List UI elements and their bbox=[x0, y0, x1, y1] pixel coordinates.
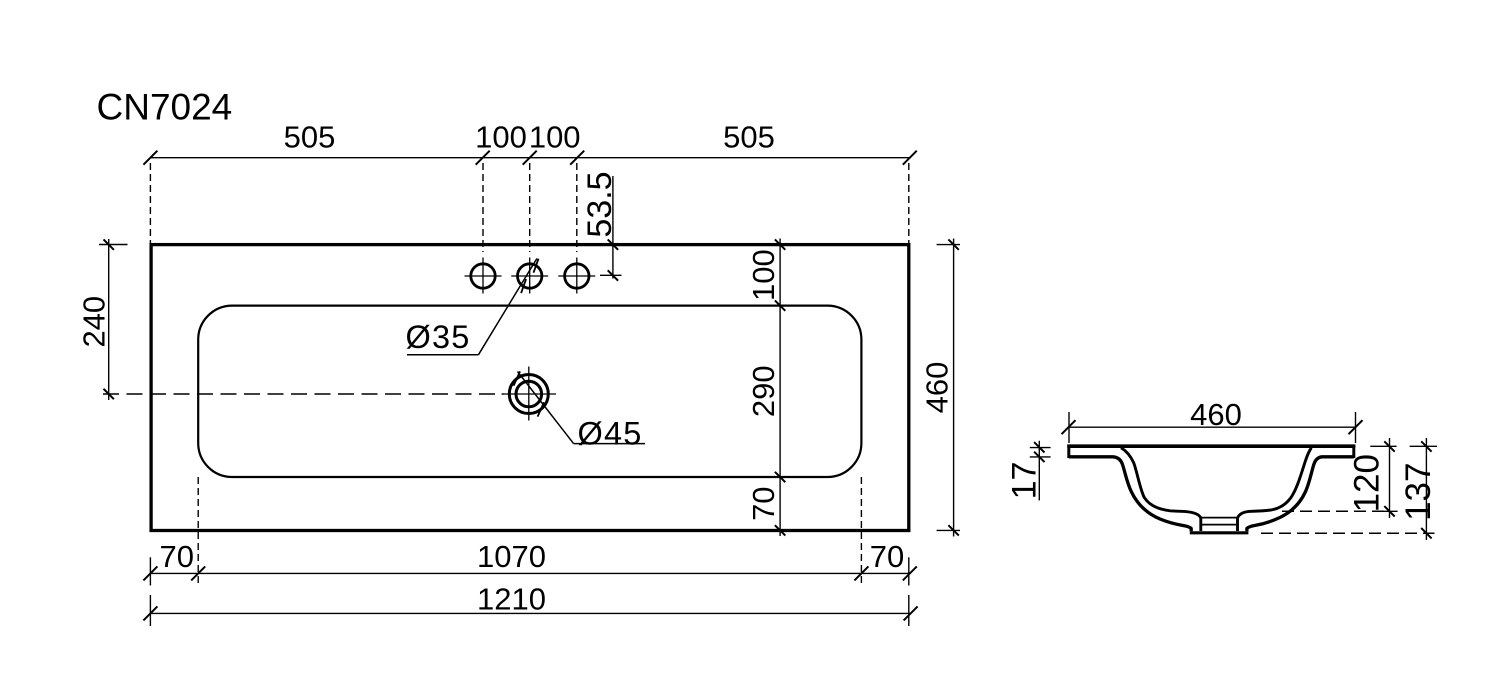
section foot bottom bbox=[1190, 531, 1249, 534]
dimension 240 vertical left bbox=[99, 239, 128, 400]
extension line left for 1210 dim bbox=[149, 595, 151, 626]
bottom dimension line 70/1070/70 bbox=[143, 566, 916, 580]
svg-text:Ø35: Ø35 bbox=[406, 319, 471, 355]
svg-text:460: 460 bbox=[920, 362, 955, 414]
svg-text:505: 505 bbox=[723, 120, 775, 155]
extension line right for 1210 dim bbox=[908, 595, 910, 626]
svg-text:70: 70 bbox=[160, 539, 194, 574]
svg-text:Ø45: Ø45 bbox=[578, 416, 643, 452]
section dimension 460 top bbox=[1062, 412, 1363, 443]
dimension 460 vertical right of plan bbox=[937, 239, 960, 537]
dashed extension hole 3 bbox=[576, 163, 578, 252]
section dimension 120 bbox=[1370, 438, 1397, 518]
svg-text:53.5: 53.5 bbox=[581, 171, 619, 237]
svg-text:120: 120 bbox=[1348, 454, 1387, 512]
section inner bowl profile bbox=[1121, 448, 1312, 531]
svg-text:CN7024: CN7024 bbox=[97, 87, 233, 128]
section outer shell profile bbox=[1069, 457, 1354, 532]
svg-text:240: 240 bbox=[77, 296, 112, 348]
dimension 53.5 vertical bbox=[600, 176, 622, 281]
svg-text:17: 17 bbox=[1006, 462, 1044, 500]
section dimension 17 bbox=[1030, 441, 1051, 501]
svg-text:505: 505 bbox=[284, 120, 336, 155]
dashed extension hole 2 bbox=[529, 163, 531, 252]
faucet hole middle bbox=[511, 258, 548, 294]
section rim left end cap bbox=[1067, 445, 1070, 459]
dashed extension basin right bottom bbox=[860, 477, 862, 586]
svg-text:1210: 1210 bbox=[477, 581, 546, 616]
dashed extension basin left bottom bbox=[197, 477, 199, 586]
faucet hole left bbox=[465, 258, 502, 294]
drain hole bbox=[502, 367, 557, 421]
leader Ø35 bbox=[407, 259, 539, 355]
svg-text:137: 137 bbox=[1399, 462, 1438, 520]
svg-text:1070: 1070 bbox=[477, 539, 546, 574]
svg-text:100: 100 bbox=[746, 249, 781, 301]
svg-text:100: 100 bbox=[475, 120, 527, 155]
svg-text:100: 100 bbox=[529, 120, 581, 155]
basin inner bowl rounded rectangle (plan view) bbox=[198, 306, 861, 477]
svg-text:290: 290 bbox=[746, 365, 781, 417]
section drain recess upper line bbox=[1201, 517, 1237, 519]
leader Ø45 bbox=[514, 371, 645, 443]
dashed extension hole 1 bbox=[482, 163, 484, 252]
bottom dimension line 1210 bbox=[143, 606, 917, 620]
top dimension line 505/100/100/505 bbox=[143, 151, 916, 165]
svg-text:70: 70 bbox=[746, 486, 781, 520]
section dimension 137 bbox=[1410, 438, 1437, 540]
section dashed line at basin bottom (120 level) bbox=[1282, 510, 1390, 512]
dashed extension left edge top bbox=[149, 163, 151, 243]
dashed centerline horizontal through drain bbox=[103, 393, 504, 395]
extension line left for 70/1070 dim bbox=[149, 557, 151, 585]
section drain recess lower line bbox=[1202, 524, 1236, 526]
section rim top line bbox=[1067, 444, 1355, 448]
svg-text:460: 460 bbox=[1190, 397, 1242, 432]
dashed extension right edge top bbox=[908, 163, 910, 243]
svg-text:70: 70 bbox=[870, 539, 904, 574]
right column dimension 100/290/70 bbox=[775, 239, 785, 537]
section rim right end cap bbox=[1352, 445, 1355, 459]
section dashed line at foot bottom (137 level) bbox=[1261, 532, 1435, 534]
basin outer rim rectangle (plan view) bbox=[151, 245, 909, 531]
extension line right for 70/1070 dim bbox=[908, 557, 910, 585]
faucet hole right bbox=[558, 258, 595, 294]
